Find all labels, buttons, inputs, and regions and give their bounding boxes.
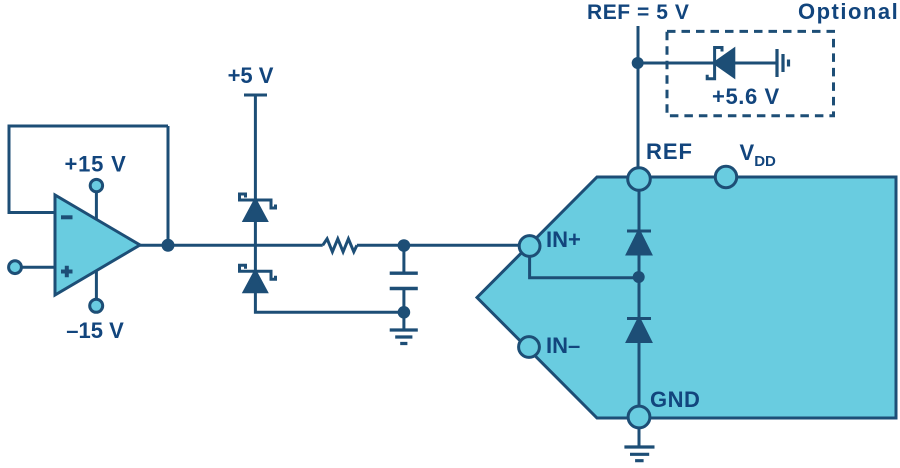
capacitor C1 top plate [390, 272, 418, 275]
capacitor C1 bottom plate [390, 287, 418, 290]
wire: capacitor to ground node [402, 289, 405, 331]
svg-text:IN+: IN+ [546, 227, 581, 252]
wire: D1 anode to signal line [254, 221, 257, 246]
op-amp U1 [55, 195, 140, 295]
svg-text:REF: REF [646, 139, 693, 164]
op-amp inverting input mark [61, 215, 73, 219]
resistor R1 [323, 239, 357, 252]
svg-text:+15 V: +15 V [64, 152, 126, 177]
wire: GND pin to ground [638, 428, 641, 447]
optional dashed box [667, 31, 834, 115]
wire: junction to zener D5 [638, 62, 715, 65]
zener diode D1 cathode [240, 194, 276, 208]
zener diode D5 [715, 50, 734, 77]
pin IN+ [519, 236, 540, 257]
wire: REF pin to diode D3 [638, 188, 641, 231]
zener diode D1 [244, 200, 266, 221]
svg-text:+5 V: +5 V [228, 63, 274, 88]
wire: junction to capacitor [402, 246, 405, 274]
pin GND [628, 406, 650, 428]
wire: +15 V supply to op-amp [95, 192, 98, 221]
wire: signal to D2 cathode [254, 245, 257, 271]
svg-text:GND: GND [650, 387, 700, 412]
node: -15 V terminal [90, 299, 103, 312]
svg-text:Optional: Optional [798, 0, 899, 24]
zener diode D2 cathode [240, 265, 276, 279]
node: +15 V terminal [90, 179, 102, 191]
wire: op-amp output to resistor [140, 244, 323, 247]
zener diode D5 cathode [707, 48, 722, 79]
node: optional branch junction dot [633, 59, 642, 68]
ground symbol (optional box, rotated) [777, 49, 789, 77]
wire: non-inverting input [21, 266, 55, 269]
wire: D3 anode to node [638, 254, 641, 319]
diode D4 [628, 319, 651, 342]
wire: D5 anode to ground [734, 62, 777, 65]
wire: resistor to IN+ [357, 244, 519, 247]
wire: feedback vertical to output node [167, 126, 170, 245]
node: capacitor ground junction dot [399, 308, 409, 318]
pin REF [628, 168, 651, 191]
pin IN- [519, 337, 540, 358]
op-amp non-inverting input mark [61, 266, 73, 278]
zener diode D2 [244, 271, 266, 292]
node: clamp junction dot [634, 273, 643, 282]
wire: REF = 5 V down to REF pin [637, 26, 640, 168]
wire: IN+ to internal node [530, 253, 639, 278]
svg-text:–15 V: –15 V [66, 318, 124, 343]
svg-text:REF = 5 V: REF = 5 V [587, 1, 689, 24]
wire: +5 V rail down [254, 95, 257, 200]
ADC device body [477, 177, 896, 418]
wire: D2 anode down and right to capacitor ground node [255, 292, 404, 313]
diode D3 [628, 231, 651, 254]
svg-text:IN–: IN– [546, 333, 580, 358]
svg-text:+5.6 V: +5.6 V [712, 84, 780, 109]
wire: op-amp feedback loop [9, 126, 168, 213]
+5 V supply bar [244, 94, 267, 97]
node: output junction dot [163, 240, 173, 250]
ground symbol (below GND pin) [624, 447, 654, 461]
wire: -15 V supply to op-amp [95, 270, 98, 300]
wire: D4 anode to GND pin [638, 342, 641, 407]
diode D4 cathode [627, 317, 651, 320]
node: non-inverting input terminal [9, 261, 22, 274]
ground symbol (below C1) [390, 330, 418, 344]
node: RC junction dot [399, 241, 409, 251]
diode D3 cathode [627, 230, 651, 233]
svg-text:VDD: VDD [740, 140, 777, 170]
pin VDD [715, 166, 736, 187]
